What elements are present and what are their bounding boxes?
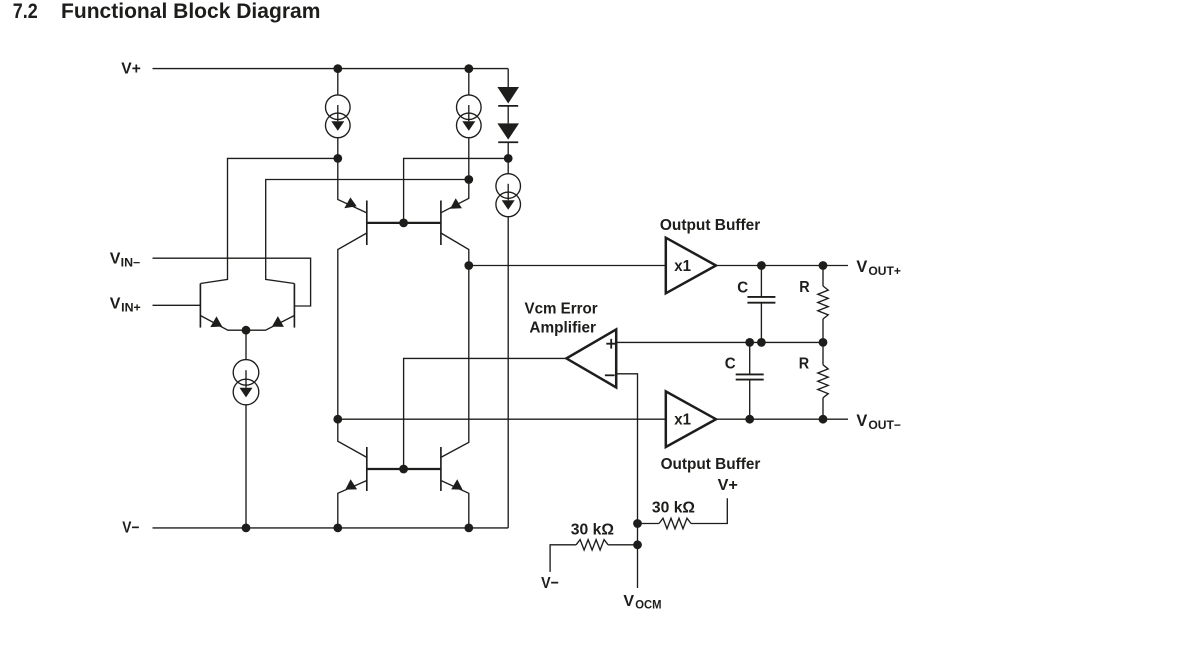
transistor Q3 emitter arrow: [344, 197, 356, 208]
junction dot C1 top: [757, 261, 766, 270]
svg-text:OUT+: OUT+: [868, 264, 901, 278]
minus sign U3 inverting input: [605, 374, 615, 376]
transistor Q5 base bar: [366, 447, 368, 491]
svg-text:Vcm Error: Vcm Error: [525, 300, 598, 317]
plus sign U3 noninverting input: [606, 339, 616, 349]
wire V+ to I2: [468, 69, 470, 95]
wire common emitters to I4: [245, 330, 247, 359]
transistor Q5 emitter arrow: [345, 479, 357, 489]
svg-text:OCM: OCM: [635, 598, 661, 612]
wire U1 output to VOUT+: [716, 265, 848, 267]
resistor R2: [818, 342, 828, 419]
junction dot V+/I2: [464, 64, 473, 73]
svg-text:V−: V−: [541, 575, 559, 592]
wire I1 to node A: [337, 138, 339, 159]
current source I2: [457, 95, 482, 138]
svg-text:OUT−: OUT−: [868, 418, 901, 432]
wire D1 to D2: [507, 106, 509, 124]
svg-text:30 kΩ: 30 kΩ: [571, 522, 614, 539]
svg-text:V: V: [110, 251, 121, 268]
op-amp U2 output buffer x1: [666, 391, 716, 447]
wire node to current source I3: [507, 158, 509, 174]
junction dot buffer U1 input node: [464, 261, 473, 270]
junction dot buffer U2 input node: [333, 415, 342, 424]
junction dot V-/Q6: [464, 524, 473, 533]
svg-text:Output Buffer: Output Buffer: [661, 456, 761, 473]
junction dot node B: [464, 175, 473, 184]
transistor Q1 emitter: [200, 316, 246, 331]
resistor R3 30k to V-: [550, 540, 637, 572]
wire V+ to diode D1: [507, 69, 509, 87]
svg-text:R: R: [799, 279, 810, 296]
wire V+ to I1: [337, 69, 339, 95]
junction dot VOCM/R3 node: [633, 540, 642, 549]
junction dot C2 top: [745, 338, 754, 347]
wire U3 minus input feedback to VOCM node: [616, 374, 637, 588]
wire Q4 collector chain down: [441, 233, 469, 457]
wire I3 down to V- rail: [507, 217, 509, 528]
junction dot Q5/Q6 bases: [399, 465, 408, 474]
transistor Q6 base bar: [440, 447, 442, 491]
svg-text:IN+: IN+: [121, 303, 141, 315]
transistor Q6 emitter: [441, 481, 469, 528]
junction dot common emitters: [242, 326, 251, 335]
junction dot R2 bottom: [819, 415, 828, 424]
wire V+ rail: [153, 68, 509, 70]
junction dot diode chain node: [504, 154, 513, 163]
svg-text:V: V: [856, 412, 867, 430]
op-amp U1 output buffer x1: [666, 238, 716, 294]
current source I1: [326, 95, 351, 138]
svg-text:Functional Block Diagram: Functional Block Diagram: [61, 0, 320, 23]
svg-text:C: C: [725, 356, 736, 373]
resistor R4 30k to V+: [638, 498, 728, 528]
transistor Q2 emitter arrow: [272, 316, 284, 327]
svg-text:V: V: [623, 593, 634, 610]
junction dot node A: [333, 154, 342, 163]
wire node B to Q2 collector: [266, 180, 469, 284]
current source I4 (tail): [233, 360, 259, 405]
svg-text:V−: V−: [122, 520, 139, 537]
wire node A down to Q3 emitter: [338, 158, 367, 213]
wire Q5/Q6 base rail: [367, 468, 441, 470]
transistor Q4 base bar: [440, 201, 442, 246]
wire I2 to node B: [468, 138, 470, 180]
wire Q3 output node to buffer U2: [338, 418, 666, 420]
op-amp U3 Vcm error amplifier: [566, 329, 616, 387]
junction dot R1 bottom: [819, 338, 828, 347]
transistor Q3 base bar: [366, 201, 368, 246]
junction dot VOCM/R4 node: [633, 519, 642, 528]
wire VIN+ input: [153, 304, 201, 306]
wire V- rail: [153, 527, 509, 529]
junction dot V-/Q5: [333, 524, 342, 533]
svg-text:V+: V+: [718, 477, 738, 494]
wire D2 to node: [507, 142, 509, 158]
wire U3 plus input to midpoint: [616, 341, 823, 343]
svg-text:Output Buffer: Output Buffer: [660, 217, 760, 234]
diode D2: [497, 123, 519, 142]
wire I4 to V- rail: [245, 405, 247, 528]
wire VIN- input: [153, 258, 311, 306]
capacitor C1: [747, 266, 775, 343]
junction dot V+/I1: [333, 64, 342, 73]
junction dot R1 top: [819, 261, 828, 270]
wire Q4 output node to buffer U1: [469, 265, 666, 267]
transistor Q1 base bar: [199, 284, 201, 328]
transistor Q2 base bar: [293, 284, 295, 328]
wire node B down to Q4 emitter: [441, 180, 469, 213]
svg-text:7.2: 7.2: [13, 0, 38, 23]
wire Q3 collector chain down: [338, 233, 367, 457]
wire Q3/Q4 base rail: [367, 222, 441, 224]
wire U2 output to VOUT-: [716, 418, 848, 420]
transistor Q2 emitter: [246, 316, 294, 331]
current source I3: [496, 174, 521, 217]
junction dot Q3/Q4 bases: [399, 219, 408, 228]
junction dot V-/I4: [242, 524, 251, 533]
junction dot C1 bottom: [757, 338, 766, 347]
transistor Q4 emitter arrow: [450, 198, 462, 209]
transistor Q5 emitter: [338, 481, 367, 528]
svg-text:x1: x1: [674, 258, 691, 275]
capacitor C2: [736, 342, 764, 419]
svg-text:x1: x1: [674, 412, 691, 429]
svg-text:IN−: IN−: [121, 258, 141, 270]
transistor Q1 emitter arrow: [210, 316, 222, 327]
resistor R1: [818, 266, 828, 343]
svg-text:R: R: [799, 355, 810, 372]
wire U3 output to Q5/Q6 bases: [404, 358, 567, 469]
svg-text:V+: V+: [121, 61, 141, 78]
svg-text:30 kΩ: 30 kΩ: [652, 499, 695, 516]
transistor Q6 emitter arrow: [451, 479, 462, 489]
svg-text:C: C: [737, 279, 748, 296]
wire node A to Q1 collector: [200, 158, 337, 283]
svg-text:Amplifier: Amplifier: [529, 320, 596, 337]
junction dot C2 bottom: [745, 415, 754, 424]
wire diode node to Q3/Q4 bases: [404, 158, 509, 223]
svg-text:V: V: [856, 258, 867, 276]
svg-text:V: V: [110, 295, 121, 312]
diode D1: [497, 87, 519, 106]
